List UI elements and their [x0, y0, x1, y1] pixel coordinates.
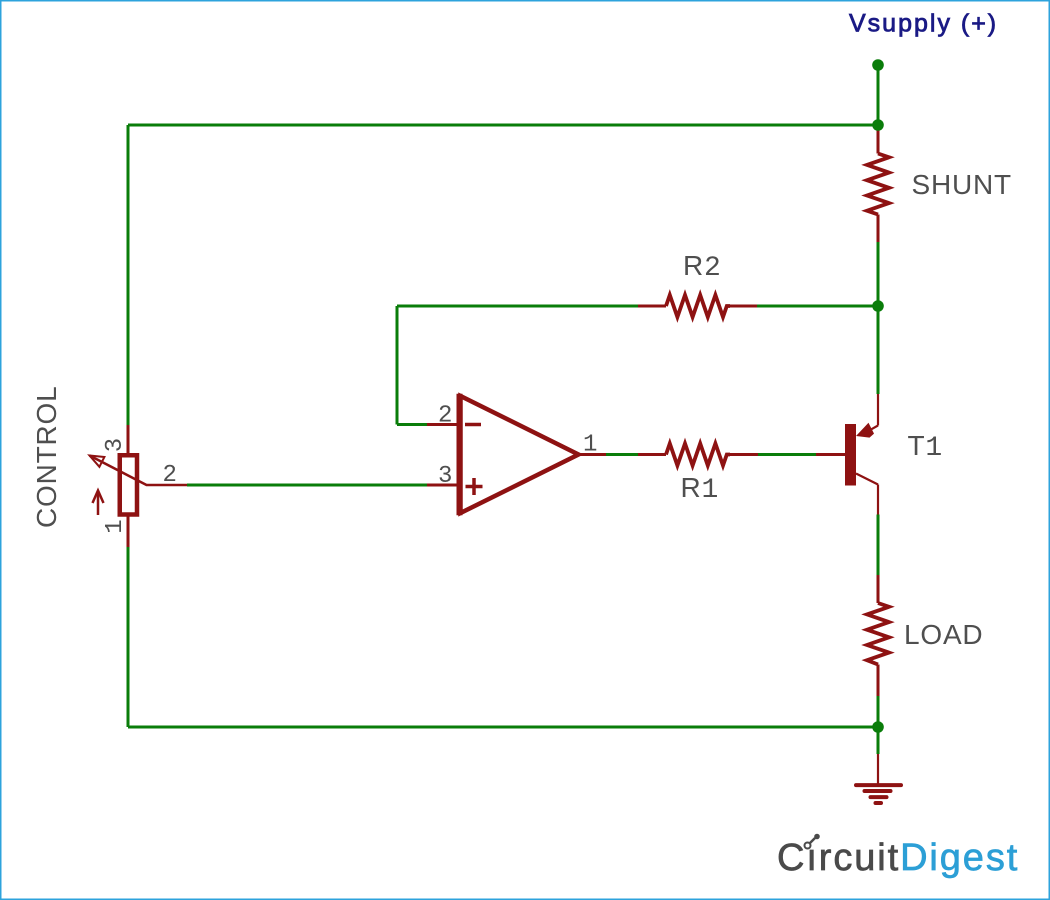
svg-text:LOAD: LOAD: [904, 619, 983, 650]
svg-text:1: 1: [583, 432, 597, 459]
svg-text:2: 2: [438, 403, 452, 430]
svg-text:3: 3: [102, 438, 129, 452]
svg-text:SHUNT: SHUNT: [912, 169, 1012, 200]
svg-text:R1: R1: [681, 472, 720, 506]
svg-text:Vsupply (+): Vsupply (+): [849, 10, 998, 38]
svg-text:2: 2: [163, 462, 177, 489]
svg-text:CONTROL: CONTROL: [31, 386, 62, 529]
svg-text:1: 1: [102, 519, 129, 533]
svg-text:CırcuitDigest: CırcuitDigest: [777, 837, 1019, 879]
svg-text:T1: T1: [908, 430, 944, 464]
svg-text:R2: R2: [683, 250, 722, 284]
svg-text:3: 3: [438, 463, 452, 490]
